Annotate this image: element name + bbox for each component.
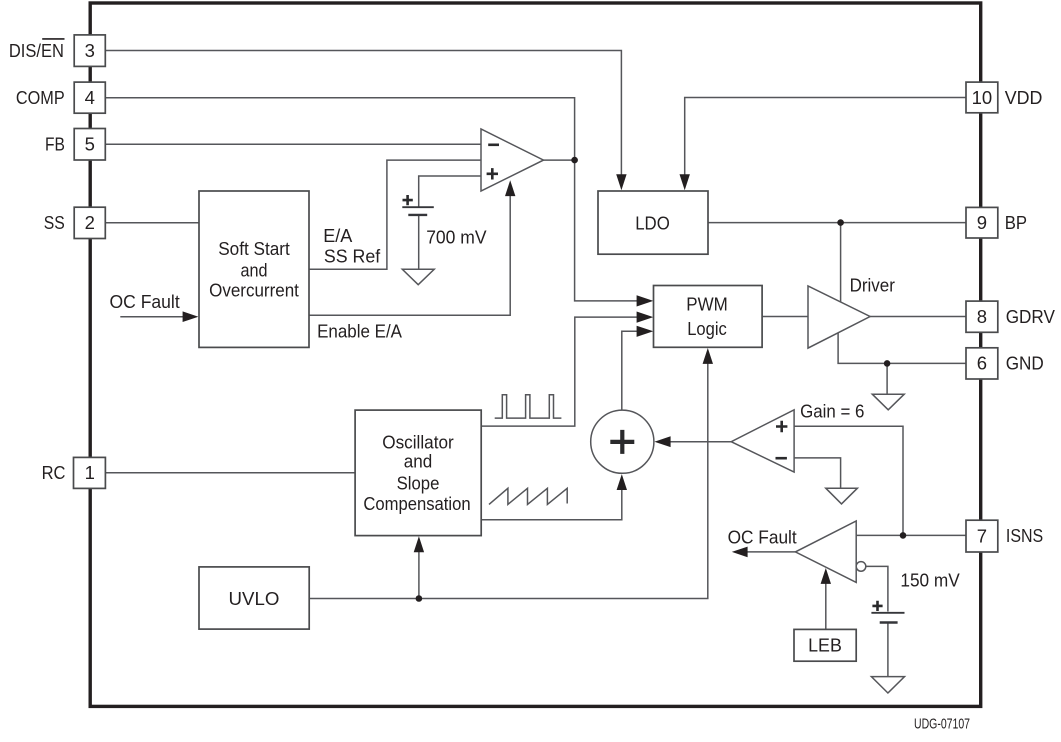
junction dot ISNS node — [900, 532, 907, 539]
svg-text:1: 1 — [85, 462, 95, 483]
svg-text:150 mV: 150 mV — [900, 569, 960, 590]
wire BP node down to Driver — [840, 223, 842, 303]
pin 9 BP — [966, 207, 1027, 238]
waveform sawtooth — [489, 488, 567, 504]
wire VDD pin10 to LDO — [685, 98, 966, 177]
arrow into summing junction right — [654, 436, 670, 447]
battery 700 mV reference — [402, 195, 434, 215]
svg-text:LDO: LDO — [635, 212, 670, 233]
svg-text:and: and — [404, 450, 433, 471]
wire gain amp noninverting input from ISNS node — [794, 426, 903, 535]
arrow into E/A bottom Enable E/A — [505, 180, 515, 196]
pin 8 GDRV — [966, 301, 1056, 332]
op-amp U1 error amplifier — [481, 129, 544, 191]
junction dot UVLO node — [416, 595, 423, 602]
pin 10 VDD — [966, 82, 1042, 113]
wire gain amp output to summing junction — [670, 441, 732, 443]
wire PWM logic output to Driver — [762, 316, 808, 318]
wire slope compensation output to summing junction — [481, 489, 622, 520]
svg-text:4: 4 — [85, 87, 95, 108]
svg-text:UDG-07107: UDG-07107 — [914, 716, 970, 733]
svg-text:FB: FB — [45, 134, 65, 155]
arrow into PWM bottom from UVLO — [703, 348, 713, 364]
arrow into LDO from VDD — [680, 174, 690, 190]
wire UVLO branch up to oscillator bottom — [418, 551, 420, 599]
block Oscillator and Slope Compensation — [355, 410, 481, 535]
wire 700mV reference to ground — [418, 216, 420, 270]
svg-text:DIS/EN: DIS/EN — [9, 40, 64, 61]
svg-text:E/A: E/A — [323, 225, 353, 246]
junction dot GND node — [884, 360, 891, 367]
arrow into Soft Start OC Fault — [183, 311, 199, 322]
svg-text:6: 6 — [977, 353, 987, 374]
arrow OC Fault output left — [732, 547, 748, 558]
pin 5 FB — [45, 129, 105, 161]
wire RC pin1 to oscillator — [105, 472, 355, 474]
pin 7 ISNS — [966, 520, 1043, 552]
svg-text:SS Ref: SS Ref — [324, 246, 381, 267]
svg-text:Driver: Driver — [850, 275, 895, 296]
svg-text:OC Fault: OC Fault — [728, 527, 797, 548]
svg-text:and: and — [241, 260, 268, 281]
pin 3 DIS/EN — [9, 35, 105, 67]
block LEB — [794, 629, 856, 661]
wire 700mV reference to E/A noninverting input — [419, 176, 481, 207]
ground below gain amp inverting input — [826, 488, 858, 504]
svg-text:PWM: PWM — [686, 294, 728, 315]
wire comparator bubble to 150mV reference — [866, 566, 888, 611]
svg-text:3: 3 — [85, 40, 95, 61]
svg-text:RC: RC — [42, 462, 66, 483]
block LDO — [598, 191, 708, 254]
svg-text:UVLO: UVLO — [229, 588, 280, 609]
wire E/A output to node — [544, 159, 575, 161]
arrow PWM input 2 — [637, 312, 654, 323]
svg-text:SS: SS — [44, 212, 65, 233]
svg-text:10: 10 — [972, 87, 993, 108]
block UVLO — [199, 567, 309, 629]
svg-text:Compensation: Compensation — [363, 493, 470, 514]
block PWM Logic — [654, 286, 763, 348]
wire oscillator pulse output to PWM input 2 — [481, 317, 637, 426]
wire ISNS pin7 to OC comparator — [856, 534, 966, 536]
wire SS pin2 to Soft Start block — [105, 222, 199, 224]
svg-text:GDRV: GDRV — [1006, 306, 1056, 327]
wire FB pin5 to E/A inverting input — [105, 143, 481, 145]
op-amp U3 current sense amplifier — [731, 410, 794, 472]
svg-text:Soft Start: Soft Start — [218, 238, 290, 259]
arrow PWM input 1 — [637, 295, 654, 306]
svg-text:ISNS: ISNS — [1006, 525, 1043, 546]
wire GND node down to ground — [886, 363, 888, 394]
wire COMP pin4 to E/A output node and PWM input 1 — [105, 98, 637, 301]
pin 2 SS — [44, 207, 105, 238]
svg-text:5: 5 — [85, 134, 95, 155]
wire OC comparator output — [747, 551, 796, 553]
wire UVLO to oscillator and PWM logic — [309, 363, 708, 599]
ground below GND node — [872, 394, 904, 410]
svg-text:9: 9 — [977, 212, 987, 233]
wire summing junction to PWM input 3 — [622, 331, 638, 410]
comparator U4 overcurrent — [795, 521, 865, 582]
wire LDO output to BP pin9 — [708, 222, 966, 224]
wire DIS/EN pin3 to LDO — [105, 51, 621, 177]
arrow into LDO from DIS/EN — [616, 174, 626, 190]
wire Driver to GND pin6 — [838, 333, 966, 364]
ground below 150 mV — [871, 677, 904, 693]
svg-text:Gain = 6: Gain = 6 — [800, 401, 864, 422]
pin 4 COMP — [16, 82, 105, 113]
driver U2 — [808, 286, 870, 348]
pin 1 RC — [42, 457, 106, 488]
arrow into summing junction bottom — [617, 474, 627, 490]
svg-text:Slope: Slope — [397, 472, 440, 493]
junction dot BP-Driver node — [837, 219, 844, 226]
arrow into oscillator bottom from UVLO — [414, 536, 424, 552]
svg-text:LEB: LEB — [808, 635, 842, 656]
summing junction — [591, 410, 654, 473]
junction dot E/A output node — [571, 157, 578, 164]
svg-text:700 mV: 700 mV — [426, 226, 487, 247]
svg-text:8: 8 — [977, 306, 987, 327]
wire E/A SS Ref from Soft Start to E/A mid input — [309, 160, 481, 269]
arrow PWM input 3 — [637, 326, 654, 337]
wire 150mV reference to ground — [887, 624, 889, 677]
svg-text:VDD: VDD — [1005, 87, 1043, 108]
wire LEB to OC comparator — [825, 582, 827, 630]
wire gain amp inverting input to ground — [794, 458, 841, 488]
svg-text:BP: BP — [1005, 212, 1027, 233]
svg-text:OC Fault: OC Fault — [110, 291, 180, 312]
pin 6 GND — [966, 348, 1044, 379]
svg-text:Overcurrent: Overcurrent — [209, 280, 299, 301]
block Soft Start and Overcurrent — [199, 191, 309, 347]
svg-text:2: 2 — [85, 212, 95, 233]
svg-text:GND: GND — [1006, 353, 1044, 374]
IC boundary border — [90, 3, 981, 706]
svg-text:Enable E/A: Enable E/A — [317, 321, 402, 342]
svg-text:7: 7 — [977, 525, 987, 546]
svg-text:COMP: COMP — [16, 87, 65, 108]
battery 150 mV reference — [871, 601, 904, 623]
svg-text:Logic: Logic — [687, 318, 727, 339]
wire OC Fault input to Soft Start — [120, 316, 184, 318]
ground below 700 mV — [402, 269, 434, 284]
wire Enable E/A from Soft Start to E/A bottom — [309, 195, 510, 316]
arrow into OC comparator from LEB — [821, 568, 831, 584]
wire Driver output to GDRV pin8 — [870, 316, 966, 318]
waveform pulse train — [495, 395, 562, 418]
